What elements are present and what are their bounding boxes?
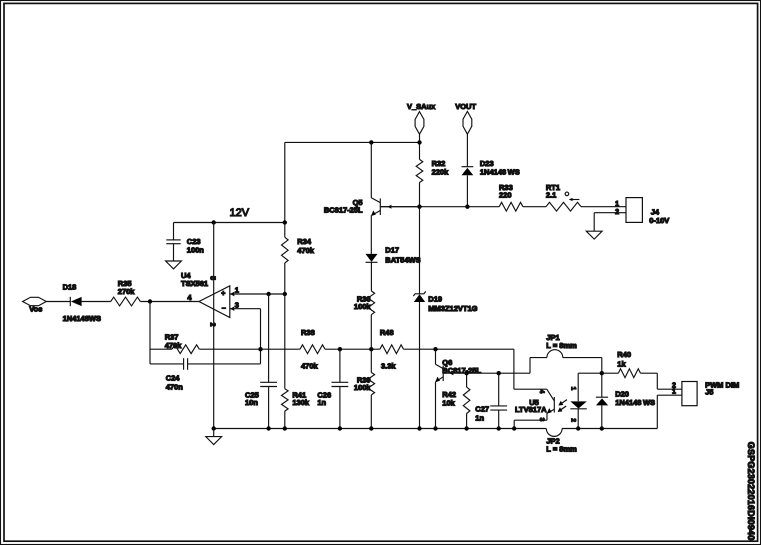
svg-text:1: 1 — [235, 286, 239, 295]
junction rail LED — [576, 426, 580, 430]
junction bus D23 — [465, 205, 469, 209]
svg-text:470k: 470k — [301, 362, 319, 371]
svg-text:+: + — [221, 290, 225, 297]
wire R42 top — [466, 373, 468, 387]
resistor R39 — [368, 372, 375, 395]
jumper JP1 — [530, 357, 547, 359]
wire bus to D19 — [419, 207, 421, 294]
wire R33 to RT1 — [523, 206, 546, 208]
svg-text:0-10V: 0-10V — [649, 216, 669, 225]
junction R36 R39 — [369, 347, 373, 351]
wire ground rail right — [562, 428, 657, 430]
wire D20 bottom — [601, 405, 603, 428]
resistor R34 — [282, 237, 289, 263]
wire output drop — [149, 302, 151, 364]
svg-text:J5: J5 — [705, 388, 713, 397]
junction Q6 collector node — [433, 347, 437, 351]
wire fb left — [150, 348, 172, 350]
svg-text:MM3Z12VT1G: MM3Z12VT1G — [428, 304, 477, 313]
junction V_SAux — [417, 140, 421, 144]
junction rail C25 — [266, 426, 270, 430]
wire LED top row — [578, 372, 602, 374]
wire Vos to D18 — [46, 301, 70, 303]
svg-text:GSPG23022016DI0940: GSPG23022016DI0940 — [746, 442, 756, 541]
wire R39 bottom — [370, 395, 372, 429]
resistor R41 — [282, 389, 289, 411]
junction rail R42 — [464, 426, 468, 430]
svg-text:5: 5 — [208, 276, 215, 280]
thermistor RT1 — [546, 202, 581, 211]
capacitor C24 — [150, 363, 183, 365]
connector J5 — [682, 382, 697, 406]
wire V_SAux rail — [285, 141, 420, 143]
junction rail U5pin3 — [512, 426, 516, 430]
svg-text:BC817-25L: BC817-25L — [442, 366, 481, 375]
wire D19 to ground rail — [419, 302, 421, 429]
transistor Q5 — [379, 198, 381, 215]
capacitor C25 — [268, 294, 270, 382]
junction rail C27 — [497, 426, 501, 430]
svg-text:R48: R48 — [380, 328, 394, 337]
wire R48 right — [404, 348, 514, 350]
svg-text:1: 1 — [615, 201, 619, 208]
node Vos flag — [23, 297, 47, 305]
wire J5 pin1 — [657, 394, 682, 396]
wire J4 pin2 — [594, 212, 626, 214]
svg-text:2: 2 — [208, 323, 215, 327]
wire R41 bottom — [284, 411, 286, 428]
capacitor C27 — [498, 373, 500, 406]
wire Q6 emitter — [435, 382, 437, 429]
svg-text:2: 2 — [570, 418, 577, 422]
svg-text:R40: R40 — [617, 350, 631, 359]
svg-text:LTV817A: LTV817A — [515, 405, 547, 414]
diode D17 — [366, 254, 378, 262]
diode D20 — [596, 396, 608, 398]
resistor R40 — [618, 369, 640, 378]
svg-text:12V: 12V — [230, 207, 250, 219]
ground J4 — [586, 231, 602, 239]
svg-text:270k: 270k — [118, 287, 136, 296]
wire Q5 emitter wire — [370, 215, 372, 254]
junction Q5 collector top — [369, 140, 373, 144]
svg-text:470k: 470k — [297, 246, 315, 255]
svg-text:R34: R34 — [297, 237, 312, 246]
svg-text:100k: 100k — [354, 302, 372, 311]
wire 12V rail — [174, 222, 285, 224]
svg-text:BAT54WS: BAT54WS — [385, 256, 420, 265]
junction rail R39 — [369, 426, 373, 430]
wire R42 bottom — [466, 414, 468, 429]
svg-text:100k: 100k — [354, 383, 372, 392]
svg-text:R38: R38 — [301, 328, 315, 337]
wire R34col down — [284, 294, 286, 389]
svg-text:L = 8mm: L = 8mm — [546, 341, 577, 350]
wire node to U5 pin4 — [513, 349, 515, 389]
wire node to R40 — [602, 372, 619, 374]
zener D19 — [413, 291, 425, 296]
ground C23 — [166, 261, 182, 269]
ground main — [213, 429, 215, 437]
svg-text:3: 3 — [235, 300, 239, 309]
node VOUT flag — [463, 111, 472, 134]
wire R40 to J5 — [641, 372, 658, 374]
junction bus R32 — [417, 205, 421, 209]
svg-text:1k: 1k — [617, 359, 626, 368]
svg-text:D17: D17 — [385, 246, 399, 255]
wire VOUT stub — [466, 134, 468, 166]
junction rail Q6 — [433, 426, 437, 430]
svg-text:TSX561: TSX561 — [181, 279, 208, 288]
svg-text:1: 1 — [672, 389, 676, 396]
svg-text:−: − — [222, 306, 226, 313]
resistor R48 — [380, 345, 404, 354]
wire R34 top lead — [284, 223, 286, 238]
svg-text:Vos: Vos — [29, 305, 42, 314]
svg-text:1n: 1n — [317, 398, 326, 407]
resistor R36 — [368, 291, 375, 315]
svg-text:3.3k: 3.3k — [381, 362, 396, 371]
svg-text:D19: D19 — [428, 295, 442, 304]
wire pin3 row — [230, 308, 261, 310]
junction rail D20 — [600, 426, 604, 430]
capacitor C26 — [339, 349, 341, 382]
node V_SAux flag — [415, 112, 424, 135]
transistor Q6 — [442, 366, 444, 381]
wire D17 to R36 — [370, 262, 372, 291]
svg-text:1N4148WS: 1N4148WS — [63, 314, 101, 323]
resistor R35 — [111, 297, 141, 306]
wire R34 to pin1 — [284, 263, 286, 294]
svg-text:V_SAux: V_SAux — [407, 102, 436, 111]
resistor R42 — [463, 387, 470, 413]
wire Q5 collector wire — [370, 142, 372, 197]
svg-text:2.1: 2.1 — [546, 191, 556, 200]
svg-text:470k: 470k — [165, 341, 183, 350]
wire R36 bottom — [370, 315, 372, 350]
wire pin1 row — [230, 293, 285, 295]
svg-text:220k: 220k — [432, 167, 450, 176]
svg-text:130k: 130k — [292, 398, 310, 407]
diode D18 — [69, 297, 71, 306]
svg-text:BC817-25L: BC817-25L — [324, 205, 363, 214]
svg-text:L = 8mm: L = 8mm — [546, 444, 577, 453]
svg-text:VOUT: VOUT — [455, 102, 476, 111]
opto light arrows — [560, 400, 567, 411]
resistor R33 — [499, 202, 523, 211]
diode D23 — [462, 166, 474, 168]
junction pin1 C25 — [266, 292, 270, 296]
svg-text:1N4148 WS: 1N4148 WS — [615, 398, 655, 407]
junction C26 top — [338, 347, 342, 351]
junction pin3 R37 — [258, 347, 262, 351]
junction pin1 R34col — [283, 292, 287, 296]
wire D18 to R35 — [82, 301, 111, 303]
resistor R32 — [416, 159, 423, 182]
resistor R38 — [300, 345, 325, 354]
wire Q5 base bus — [380, 206, 499, 208]
wire R39 top lead — [370, 349, 372, 372]
capacitor C23 — [173, 223, 175, 240]
svg-text:4: 4 — [538, 390, 545, 394]
junction PWM node — [600, 371, 604, 375]
svg-text:10n: 10n — [245, 398, 258, 407]
opto LED of U5 — [577, 373, 579, 401]
pin 3 arrow U4 — [230, 307, 234, 311]
pin 1 arrow U4 — [230, 292, 234, 296]
junction rail opamp — [212, 426, 216, 430]
junction output node — [148, 299, 152, 303]
svg-text:100n: 100n — [187, 246, 205, 255]
opto U5 phototransistor — [553, 397, 555, 413]
junction rail C26 — [338, 426, 342, 430]
junction base R42 — [464, 371, 468, 375]
svg-text:D18: D18 — [63, 282, 77, 291]
junction rail D19 — [417, 426, 421, 430]
svg-text:3: 3 — [538, 418, 545, 422]
wire R38 to R48 — [325, 348, 380, 350]
svg-text:1N4148 WS: 1N4148 WS — [480, 167, 520, 176]
wire V_SAux stub — [419, 134, 421, 159]
wire 12V drop to R34 column — [284, 142, 286, 222]
wire pin3 drop — [260, 309, 262, 364]
svg-text:470n: 470n — [166, 383, 184, 392]
wire R37 to R38 — [199, 348, 300, 350]
wire R35 to opamp — [140, 301, 199, 303]
resistor R37 — [172, 345, 199, 354]
wire ground rail — [214, 428, 547, 430]
wire R32 bottom — [419, 183, 421, 207]
wire D23 to bus — [466, 175, 468, 206]
wire Q6 collector — [435, 349, 437, 364]
svg-text:10k: 10k — [442, 398, 455, 407]
wire base to JP1 — [529, 358, 531, 374]
svg-text:1: 1 — [570, 387, 577, 391]
jumper JP2 — [546, 429, 562, 437]
junction 12V opamp supply — [212, 220, 216, 224]
wire RT1 to J4 — [581, 206, 626, 208]
svg-text:C24: C24 — [166, 374, 181, 383]
junction 12V R34 — [283, 220, 287, 224]
junction base C27 — [497, 371, 501, 375]
connector J4 — [626, 198, 642, 223]
wire U5 pin3 row — [546, 413, 548, 421]
wire opamp supply column — [213, 223, 215, 429]
op-amp U4 triangle — [199, 286, 230, 318]
svg-text:1n: 1n — [475, 413, 484, 422]
svg-text:220: 220 — [499, 191, 512, 200]
junction rail R41 — [283, 426, 287, 430]
wire D20 top — [601, 373, 603, 397]
svg-text:C27: C27 — [475, 404, 489, 413]
